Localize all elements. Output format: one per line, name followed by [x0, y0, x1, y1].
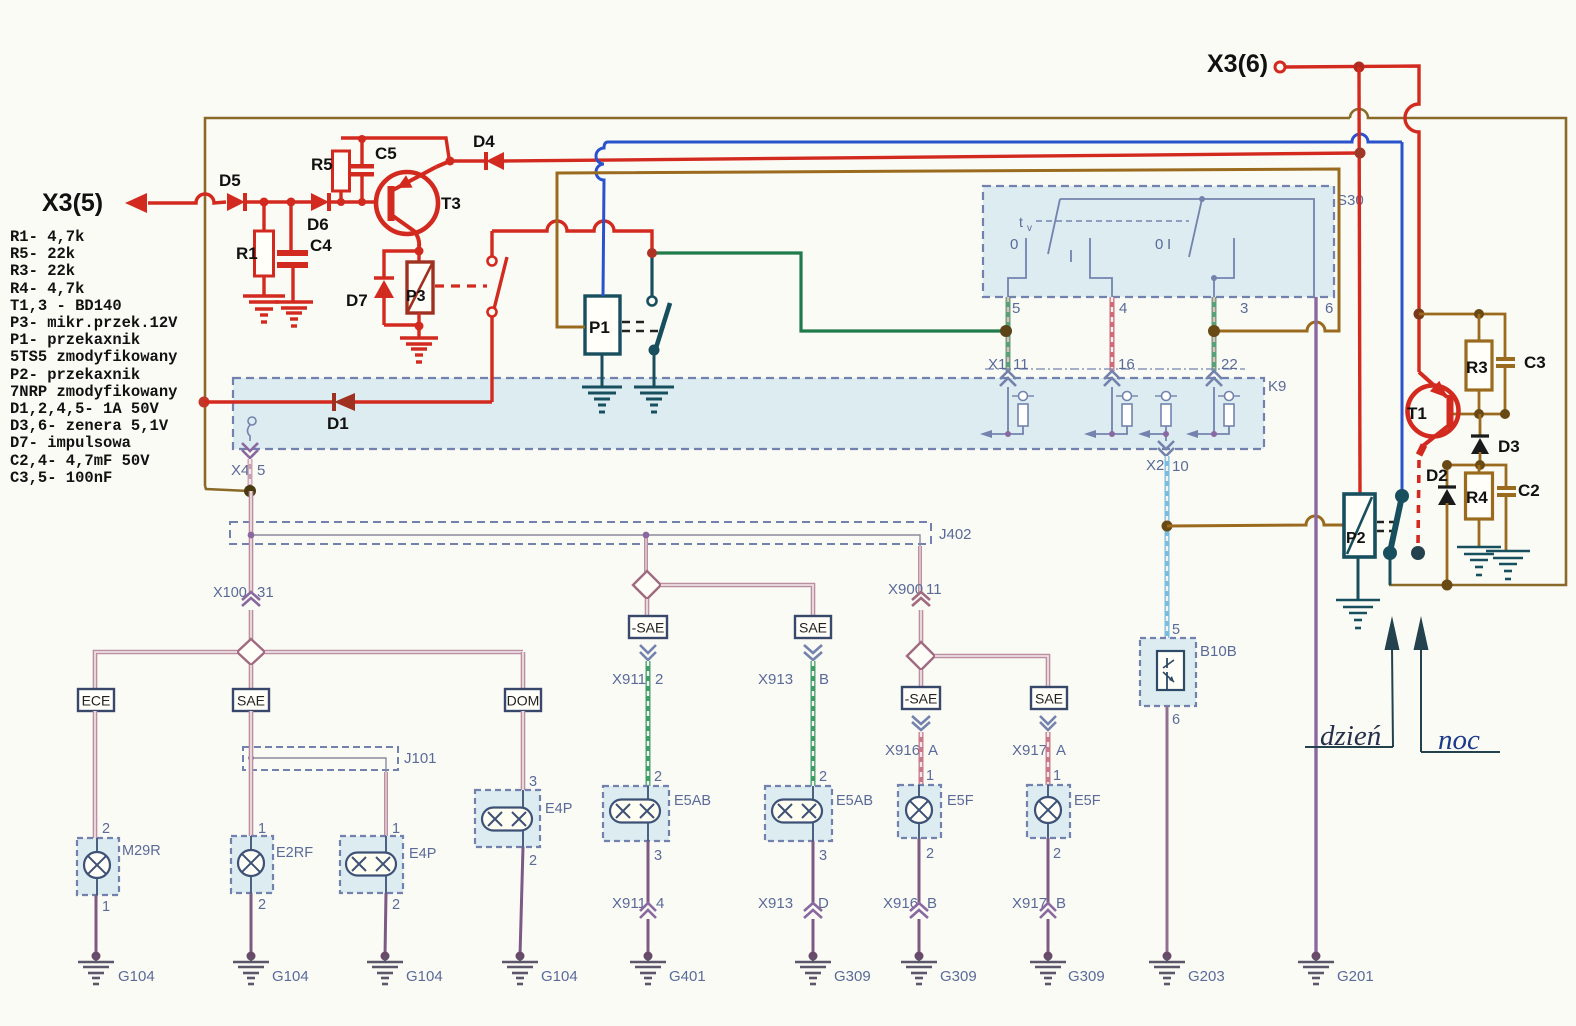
svg-text:3: 3: [1240, 300, 1248, 317]
svg-text:1: 1: [258, 821, 266, 837]
svg-text:-SAE: -SAE: [632, 620, 665, 636]
switch contact (P1 controlled): [648, 297, 657, 306]
svg-text:X917: X917: [1012, 742, 1047, 759]
wire: D5 to D6: [247, 200, 311, 203]
svg-text:D4: D4: [473, 132, 495, 151]
wire: P3 bottom / D7 to ground: [384, 323, 419, 326]
svg-text:X916: X916: [885, 742, 920, 759]
junction box J101: [243, 747, 398, 770]
diode D6: [311, 193, 329, 211]
wire: S30 pin6 to G201 (purple): [1314, 297, 1317, 956]
node: C4 tap: [287, 198, 296, 207]
splice diamond (X100 tree): [237, 639, 265, 665]
svg-text:D3,6- zenera 5,1V: D3,6- zenera 5,1V: [10, 417, 169, 435]
dashed link P3 to switch: [435, 284, 487, 287]
wire: to SAE right branch: [661, 585, 813, 616]
svg-text:D1: D1: [327, 414, 349, 433]
connector X1 row: [985, 368, 1245, 370]
splice diamond (E5F tree): [907, 642, 935, 670]
relay P2 coil: [1344, 494, 1375, 557]
svg-text:R1: R1: [236, 244, 258, 263]
splice diamond (E5AB tree): [633, 571, 661, 599]
svg-text:2: 2: [529, 853, 537, 869]
connector code SAE (X913): [795, 616, 831, 638]
node: R5 bottom tap: [337, 198, 345, 206]
svg-text:T1: T1: [1407, 404, 1427, 423]
lamp M29R: [77, 838, 119, 895]
switch contact (P3 controlled): [488, 257, 497, 266]
wire: SAE branch: [249, 711, 254, 838]
svg-text:D6: D6: [307, 215, 329, 234]
svg-text:M29R: M29R: [122, 843, 161, 859]
svg-text:22: 22: [1221, 356, 1238, 373]
svg-text:5: 5: [1172, 622, 1180, 638]
diode D5: [227, 193, 245, 211]
wire: X2 to B10B striped blue: [1165, 456, 1170, 638]
svg-text:dzień: dzień: [1320, 720, 1381, 752]
svg-text:2: 2: [258, 897, 266, 913]
wire: X3(6) feed: [1285, 66, 1419, 372]
connector code SAE (X917): [1031, 687, 1067, 709]
X4 switch symbol inside K9: [248, 417, 256, 425]
svg-text:2: 2: [654, 769, 662, 785]
node: D1 rail on frame: [199, 397, 210, 408]
S30 internal switch drawing: [1060, 199, 1314, 297]
node: red/brown rail R3 top: [1414, 309, 1425, 320]
node: B10B/P2 brown tap: [1162, 521, 1173, 532]
ground G309 (E5F right): [1047, 956, 1049, 962]
ground G401: [647, 956, 649, 962]
svg-text:C2,4- 4,7mF 50V: C2,4- 4,7mF 50V: [10, 452, 150, 470]
relay coil P3: [417, 251, 420, 262]
svg-text:2: 2: [655, 671, 663, 688]
svg-text:noc: noc: [1438, 724, 1480, 756]
svg-text:E2RF: E2RF: [276, 845, 313, 861]
wire: X3(5) red lead with left arrow: [125, 193, 147, 213]
wire: X100 to diamond: [249, 610, 254, 641]
svg-text:B: B: [1056, 895, 1066, 912]
node: green/teal T junction: [650, 253, 653, 297]
relay P1 coil: [585, 296, 620, 354]
wire: top rail R5/C5 to T3 collector: [341, 138, 449, 158]
svg-text:I: I: [1167, 236, 1171, 253]
svg-text:10: 10: [1172, 458, 1189, 475]
ground G104 (E4P left): [384, 956, 386, 962]
connector code -SAE (X916): [902, 687, 940, 709]
svg-text:6: 6: [1325, 300, 1333, 317]
resistor R5: [339, 151, 342, 202]
svg-text:E4P: E4P: [545, 801, 572, 817]
dashed link P2 to contact: [1377, 521, 1398, 524]
resistor R4: [1478, 465, 1481, 473]
svg-text:C4: C4: [310, 236, 332, 255]
svg-text:X913: X913: [758, 671, 793, 688]
svg-text:11: 11: [926, 581, 942, 598]
svg-text:R1- 4,7k: R1- 4,7k: [10, 228, 84, 246]
wire: E5AB to X911-4: [647, 841, 650, 905]
svg-text:G309: G309: [834, 968, 871, 985]
diode D3: [1479, 414, 1482, 436]
svg-text:X3(5): X3(5): [42, 189, 103, 217]
wire: to E5F right: [1046, 732, 1051, 785]
ground below P1 coil: [582, 386, 622, 389]
ground G309 (E5AB): [812, 956, 814, 962]
resistor R3: [1478, 314, 1481, 341]
wire: red down to P2: [1359, 67, 1360, 494]
wire: brown feed to P1 (from S30 pin3): [557, 169, 1339, 331]
wire: E2RF to ground: [250, 893, 253, 956]
ground below C4: [275, 300, 313, 303]
wire: switch bottom down to D1 rail: [490, 316, 493, 402]
svg-text:3: 3: [819, 848, 827, 864]
ground G201: [1315, 956, 1317, 962]
transistor T3: [376, 172, 438, 234]
svg-text:11: 11: [1013, 356, 1029, 373]
svg-text:C3: C3: [1524, 353, 1546, 372]
svg-text:0: 0: [1155, 236, 1163, 253]
svg-text:4: 4: [1119, 300, 1127, 317]
wire: green from node to S30 pin5: [652, 253, 1005, 331]
wire: ECE branch: [93, 711, 98, 838]
svg-text:J402: J402: [939, 526, 972, 543]
capacitor C2: [1497, 486, 1516, 490]
wire: S30 pin5 striped: [1006, 297, 1011, 371]
svg-text:P1- przekaxnik: P1- przekaxnik: [10, 331, 140, 349]
junction box J402: [230, 522, 931, 544]
svg-text:1: 1: [102, 899, 110, 915]
arrow dzien: [1385, 616, 1400, 650]
sensor B10B: [1140, 638, 1196, 706]
svg-text:A: A: [928, 742, 938, 759]
connector code DOM: [505, 689, 541, 711]
wire inside J402: [251, 535, 920, 546]
ground below P3: [400, 336, 438, 339]
connector X917-A: [1040, 716, 1056, 724]
svg-text:X3(6): X3(6): [1207, 50, 1268, 78]
svg-text:D1,2,4,5- 1A 50V: D1,2,4,5- 1A 50V: [10, 400, 160, 418]
lamp E5AB (left): [603, 786, 669, 841]
ground G309 (E5F left): [918, 956, 920, 962]
wire: green striped to E5AB right: [811, 661, 816, 786]
ground below R4: [1457, 546, 1501, 549]
svg-text:P2- przekaxnik: P2- przekaxnik: [10, 366, 140, 384]
wire: J402 corner to X900: [918, 546, 922, 593]
wire: to E5F left: [919, 732, 924, 785]
wire: S30 pin4 striped: [1110, 297, 1115, 371]
svg-text:1: 1: [392, 821, 400, 837]
svg-text:G201: G201: [1337, 968, 1374, 985]
svg-text:C5: C5: [375, 144, 397, 163]
svg-text:v: v: [1027, 223, 1032, 234]
svg-text:X1: X1: [988, 356, 1006, 373]
transistor T1: [1408, 386, 1459, 437]
lamp E4P (right): [475, 790, 540, 847]
svg-text:ECE: ECE: [82, 693, 111, 709]
node: frame/X4 junction: [244, 485, 256, 497]
capacitor C5: [360, 139, 363, 166]
svg-text:1: 1: [926, 768, 934, 784]
svg-text:B: B: [927, 895, 937, 912]
svg-text:P3: P3: [406, 288, 426, 305]
wire: outer frame top/left/right (brown): [205, 118, 1350, 486]
ground below P1 contact: [634, 386, 674, 389]
svg-text:X913: X913: [758, 895, 793, 912]
connector X911-2: [640, 645, 656, 653]
capacitor C3: [1496, 357, 1515, 361]
connector X913-B: [804, 645, 822, 653]
svg-text:2: 2: [102, 821, 110, 837]
svg-text:T1,3 - BD140: T1,3 - BD140: [10, 297, 122, 315]
svg-text:SAE: SAE: [237, 693, 265, 709]
svg-text:E5AB: E5AB: [836, 793, 873, 809]
svg-text:t: t: [1019, 214, 1023, 230]
svg-text:4: 4: [656, 895, 664, 912]
svg-text:0: 0: [1010, 236, 1018, 253]
svg-text:D7- impulsowa: D7- impulsowa: [10, 434, 131, 452]
svg-text:SAE: SAE: [1035, 691, 1063, 707]
svg-text:7NRP zmodyfikowany: 7NRP zmodyfikowany: [10, 383, 177, 401]
svg-text:A: A: [1056, 742, 1066, 759]
svg-text:D3: D3: [1498, 437, 1520, 456]
svg-text:G203: G203: [1188, 968, 1225, 985]
module S30 box: [983, 186, 1334, 297]
node: X3(6) branch: [1354, 62, 1365, 73]
svg-text:2: 2: [392, 897, 400, 913]
arrow noc: [1414, 616, 1429, 650]
lamp E2RF: [231, 836, 273, 893]
svg-text:X4: X4: [231, 462, 249, 479]
wire: E4P right to ground: [520, 847, 523, 956]
wire: E4P to ground: [385, 893, 386, 956]
svg-text:2: 2: [926, 846, 934, 862]
ground G203: [1166, 956, 1168, 962]
svg-text:DOM: DOM: [507, 693, 540, 709]
svg-text:C2: C2: [1518, 481, 1540, 500]
connector code SAE: [233, 689, 269, 711]
wire: D4 to X3(6) node (long red): [504, 153, 1360, 161]
svg-text:G309: G309: [1068, 968, 1105, 985]
svg-text:1: 1: [1053, 768, 1061, 784]
connector X4: [242, 443, 258, 451]
K9 internals: [1007, 387, 1009, 434]
node: C5 top: [358, 135, 366, 143]
connector code -SAE (X911): [629, 616, 667, 638]
node: brown joins pin3: [1208, 325, 1220, 337]
wire: frame bottom-left to X4 node: [205, 486, 249, 491]
wire: E5AB right to X913-D: [812, 841, 815, 905]
svg-text:R3: R3: [1466, 358, 1488, 377]
terminal circle X3(6): [1275, 62, 1285, 72]
svg-text:C3,5- 100nF: C3,5- 100nF: [10, 469, 112, 487]
node: T3/D4 junction: [446, 157, 455, 166]
svg-text:R4: R4: [1466, 488, 1488, 507]
wire: B10B to ground: [1166, 706, 1169, 956]
svg-text:5: 5: [1012, 300, 1020, 317]
lamp E5F (right): [1027, 785, 1070, 838]
wire: M29R to ground: [95, 895, 98, 956]
wire: X900 to diamond: [919, 610, 924, 643]
ground below P2: [1336, 599, 1380, 602]
svg-text:6: 6: [1172, 712, 1180, 728]
svg-text:T3: T3: [441, 194, 461, 213]
ground G104 (M29R): [95, 956, 97, 962]
diode D4: [450, 159, 486, 162]
svg-text:G104: G104: [541, 968, 578, 985]
ground G104 (E2RF): [250, 956, 252, 962]
node: T3 emitter / P3 top: [415, 247, 424, 256]
svg-text:3: 3: [654, 848, 662, 864]
wire: DOM branch: [521, 711, 526, 790]
svg-text:D5: D5: [219, 171, 241, 190]
lamp E5F (left): [898, 785, 941, 838]
svg-text:J101: J101: [404, 750, 437, 767]
svg-text:B: B: [819, 671, 829, 688]
svg-text:D7: D7: [346, 291, 368, 310]
wire: J402 tap to diamond (E5AB tree): [644, 537, 648, 572]
node: D2 on bottom rail: [1442, 580, 1453, 591]
module K9 box: [233, 378, 1264, 449]
wire: P2 coil to ground: [1357, 557, 1360, 600]
svg-text:G401: G401: [669, 968, 706, 985]
svg-text:B10B: B10B: [1200, 643, 1237, 660]
wire: contact to bottom rail: [1389, 553, 1392, 585]
wire: X4 pin5 striped: [248, 459, 253, 491]
lamp E4P (left): [340, 836, 403, 893]
wire: rail above R4/C2: [1447, 465, 1506, 487]
connector X916-A: [912, 716, 930, 724]
node: C5 bottom tap: [358, 198, 366, 206]
wire: blue down to P2 contact: [1401, 142, 1404, 492]
wire: green striped to E5AB: [646, 661, 651, 786]
svg-text:-SAE: -SAE: [905, 691, 938, 707]
wire: S30 pin3 striped: [1212, 297, 1217, 371]
svg-text:2: 2: [1053, 846, 1061, 862]
svg-text:P3- mikr.przek.12V: P3- mikr.przek.12V: [10, 314, 178, 332]
svg-text:R5- 22k: R5- 22k: [10, 245, 75, 263]
svg-text:R4- 4,7k: R4- 4,7k: [10, 280, 84, 298]
dashed link P1 to contact: [622, 321, 650, 324]
ground G104 (E4P right): [519, 956, 521, 962]
wire: brown rail R3/C3 top: [1419, 314, 1505, 359]
svg-text:E5F: E5F: [947, 793, 974, 809]
diode D7 (pulse): [384, 251, 419, 278]
svg-text:G104: G104: [118, 968, 155, 985]
wire inside J101: [251, 758, 386, 772]
svg-text:3: 3: [529, 774, 537, 790]
node: red rail junction: [1355, 148, 1366, 159]
changeover contact (P2): [1390, 496, 1402, 552]
wire: J101 to E4P: [384, 772, 388, 836]
svg-text:E4P: E4P: [409, 846, 436, 862]
svg-text:E5F: E5F: [1074, 793, 1101, 809]
wire: X4 node down to X100: [249, 491, 254, 592]
wire: brown B10B to P2: [1167, 516, 1344, 526]
svg-text:G104: G104: [406, 968, 443, 985]
wire: E5F to X916-B: [918, 838, 921, 905]
svg-text:E5AB: E5AB: [674, 793, 711, 809]
svg-text:R3- 22k: R3- 22k: [10, 262, 75, 280]
wire: D6 to T3 base: [331, 200, 378, 203]
svg-text:16: 16: [1118, 356, 1135, 373]
resistor R1: [262, 202, 265, 231]
wire: E5F right to X917-B: [1047, 838, 1050, 905]
wire: to SAE (X917): [935, 656, 1048, 687]
connector code ECE: [78, 689, 114, 711]
svg-text:X911: X911: [612, 671, 646, 688]
svg-text:5: 5: [257, 462, 265, 479]
svg-text:P2: P2: [1346, 530, 1366, 547]
connector chevrons X1: [1000, 371, 1016, 379]
svg-text:G309: G309: [940, 968, 977, 985]
diode D2: [1446, 465, 1449, 487]
wire: T1 emitter dashed to contact: [1418, 460, 1419, 545]
wire: P1 coil to ground: [601, 354, 604, 387]
node: green joins pin5: [1000, 325, 1012, 337]
diode D1: [204, 400, 334, 403]
wire: T1 base rail: [1452, 413, 1505, 416]
connector X2: [1158, 441, 1174, 449]
node: R1 tap: [260, 198, 269, 207]
wire: red bumped rail to green node: [492, 221, 652, 253]
svg-text:5TS5 zmodyfikowany: 5TS5 zmodyfikowany: [10, 348, 177, 366]
svg-text:SAE: SAE: [799, 620, 827, 636]
ground below C2: [1486, 550, 1530, 553]
capacitor C4: [289, 202, 292, 251]
lamp E5AB (right): [765, 786, 832, 841]
svg-text:R5: R5: [311, 155, 333, 174]
wire: switch top to bumped rail: [490, 231, 493, 257]
svg-text:G104: G104: [272, 968, 309, 985]
svg-text:2: 2: [819, 769, 827, 785]
svg-text:K9: K9: [1268, 378, 1286, 395]
svg-text:X2: X2: [1146, 457, 1164, 474]
ground below R1: [243, 294, 285, 297]
svg-text:P1: P1: [589, 318, 610, 337]
wire: blue feed into P1: [596, 134, 1402, 296]
wire: lamp rail: [265, 650, 523, 655]
